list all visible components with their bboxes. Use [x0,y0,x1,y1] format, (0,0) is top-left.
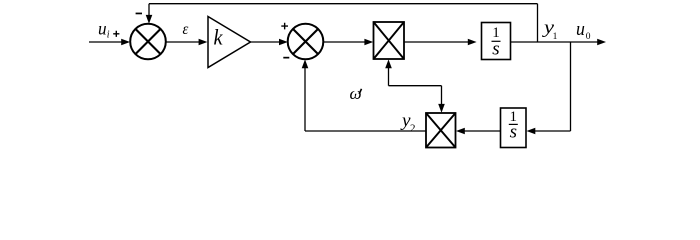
label epsilon [183,21,189,38]
label u_i [98,19,110,41]
plus sign at S1 input [113,31,119,37]
multiplier M1 [374,22,405,59]
svg-text:i: i [107,30,110,41]
svg-text:0: 0 [586,32,591,42]
label u_0 [576,19,591,42]
label y_2 [400,110,416,135]
svg-text:2: 2 [410,123,416,135]
minus sign at S2 [283,57,289,59]
summing junction S1 [130,24,166,60]
wire S2 to multiplier M1 [323,39,373,46]
svg-text:y: y [400,110,411,130]
integrator block 1/s (bottom) [501,108,527,148]
minus sign above S1 [136,13,142,15]
svg-text:s: s [510,121,517,142]
wire M2 to S2 feedback [302,59,426,131]
svg-text:u: u [576,19,585,40]
wire integrator 1 to output [511,39,607,46]
node u0 takeoff (vertical down) [570,42,572,131]
wire M1 to integrator 1 [404,39,477,46]
amplifier k (triangle) [208,17,251,68]
svg-text:u: u [98,19,107,39]
wire omega-prime to M2 top [438,86,445,113]
summing junction S2 [288,24,324,60]
wire input to S1 [89,39,130,46]
plus sign at S2 [281,23,288,30]
svg-text:s: s [492,39,499,60]
wire top feedback [146,4,538,24]
svg-text:ε: ε [183,21,189,38]
svg-text:k: k [214,24,224,49]
label y_1 [542,17,558,42]
label k [214,24,224,49]
svg-text:1: 1 [553,32,558,42]
wire amplifier to S2 [251,39,288,46]
wire S1 to amplifier [166,39,208,46]
label omega-prime [350,84,362,103]
wire omega-prime to M1 bottom [385,59,441,85]
wire integrator 2 to multiplier M2 [456,128,501,135]
integrator block 1/s (top) [482,23,511,60]
node y1 takeoff (vertical up) [537,4,539,42]
wire down-feedback to integrator 2 [527,128,571,135]
multiplier M2 [426,113,456,148]
